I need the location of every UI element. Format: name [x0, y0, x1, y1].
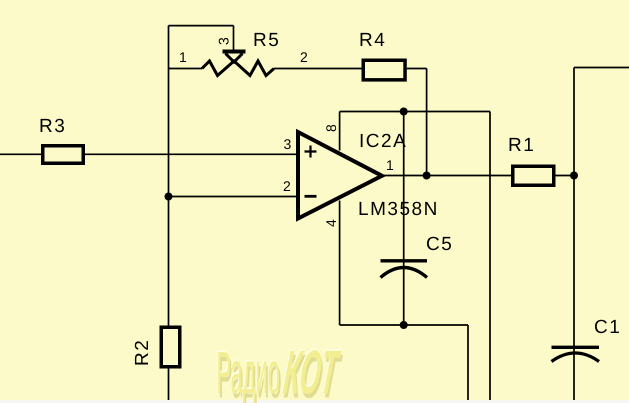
svg-text:3: 3 — [216, 37, 232, 45]
svg-text:C1: C1 — [594, 317, 621, 338]
svg-text:C5: C5 — [426, 234, 453, 255]
svg-text:1: 1 — [386, 157, 394, 173]
svg-text:2: 2 — [300, 49, 308, 65]
svg-text:2: 2 — [283, 178, 291, 194]
svg-text:Радио: Радио — [217, 339, 281, 403]
svg-text:R2: R2 — [132, 339, 153, 366]
svg-text:8: 8 — [323, 124, 339, 132]
svg-text:КОТ: КОТ — [280, 339, 343, 403]
svg-text:R3: R3 — [39, 116, 66, 137]
svg-text:R1: R1 — [508, 135, 535, 156]
svg-text:4: 4 — [323, 219, 339, 227]
svg-text:LM358N: LM358N — [358, 199, 439, 220]
svg-text:R5: R5 — [253, 30, 280, 51]
svg-text:R4: R4 — [359, 30, 386, 51]
svg-text:IC2A: IC2A — [359, 131, 407, 152]
svg-text:1: 1 — [179, 49, 187, 65]
svg-text:3: 3 — [284, 136, 292, 152]
